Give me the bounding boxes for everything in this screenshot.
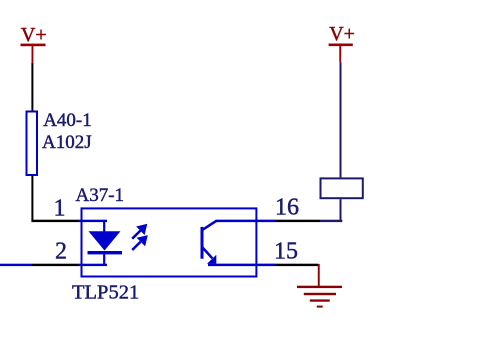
svg-text:16: 16: [275, 195, 299, 221]
svg-text:15: 15: [274, 238, 298, 264]
svg-text:V+: V+: [21, 24, 47, 46]
svg-text:2: 2: [55, 239, 67, 265]
svg-text:A40-1: A40-1: [43, 110, 92, 131]
svg-text:A37-1: A37-1: [76, 185, 125, 206]
svg-text:TLP521: TLP521: [72, 282, 139, 304]
svg-text:V+: V+: [329, 23, 355, 45]
svg-text:A102J: A102J: [42, 132, 92, 153]
svg-text:1: 1: [54, 195, 66, 221]
